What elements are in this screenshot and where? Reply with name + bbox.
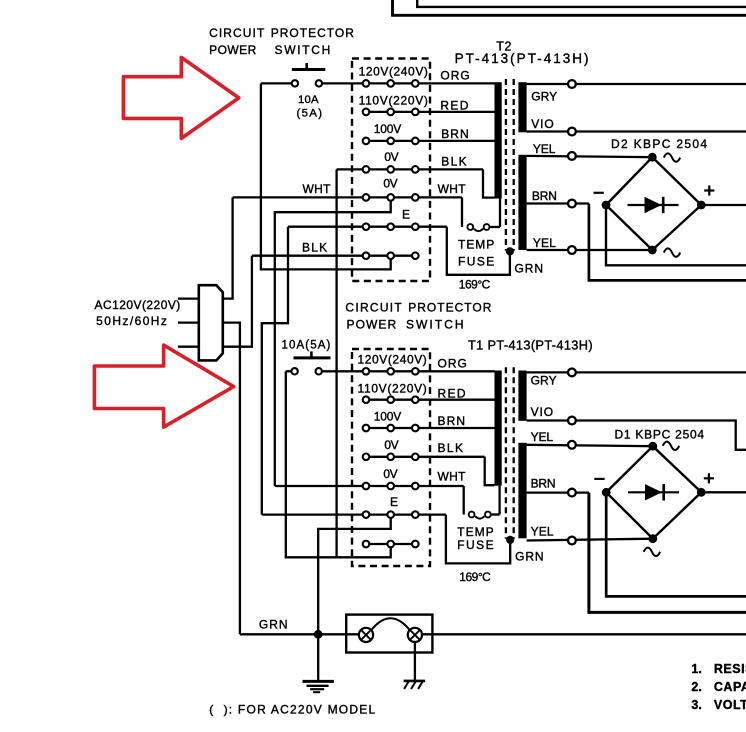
svg-text:YEL: YEL — [531, 430, 554, 444]
wire switch SW2 right lead to selector row1 — [319, 370, 366, 372]
svg-text:169°C: 169°C — [459, 277, 491, 291]
svg-text:YEL: YEL — [531, 524, 554, 538]
label + terminal D2 — [704, 189, 714, 191]
wire selector S1 row7 — [366, 543, 415, 545]
label - terminal D2 — [594, 192, 604, 194]
wire selector S2 row6 E lead to shield GRN — [288, 226, 447, 228]
svg-text:120V(240V): 120V(240V) — [358, 352, 427, 366]
svg-text:POWER: POWER — [209, 43, 257, 57]
wire switch SW1 left lead — [261, 82, 295, 84]
svg-text:BRN: BRN — [441, 127, 469, 141]
temp fuse F1 — [475, 516, 484, 518]
svg-text:GRY: GRY — [531, 373, 557, 387]
svg-text:( ): FOR AC220V MODEL: ( ): FOR AC220V MODEL — [209, 703, 375, 717]
wire arc between lamps — [371, 618, 409, 630]
svg-text:D1 KBPC 2504: D1 KBPC 2504 — [615, 427, 705, 441]
svg-text:PT-413(PT-413H): PT-413(PT-413H) — [455, 51, 589, 66]
wire plug pin3 (BLK) up to selector S2 row7 — [223, 256, 252, 347]
label ~ bottom D2 — [664, 248, 680, 256]
power switch SW1 (10A/5A circuit protector) — [292, 68, 325, 71]
wire T1 secondary YEL lower (to D1 ~ bottom) — [527, 539, 653, 541]
wire T2 secondary VIO — [527, 130, 746, 132]
wire lamp LA2 to chassis ground — [414, 642, 416, 681]
AC input plug — [199, 285, 223, 360]
wire selector S2 row2 110V(220V) to primary RED — [366, 111, 495, 113]
wire selector S2 row4 0V / BLK tap — [337, 168, 483, 170]
wire selector S1 row3 to primary BRN — [366, 427, 495, 429]
transformer T2 secondary winding B bar — [518, 155, 526, 250]
svg-text:BLK: BLK — [438, 441, 464, 455]
label - terminal D1 — [594, 478, 604, 480]
svg-text:RED: RED — [438, 386, 466, 400]
wire selector S1 row2 to primary RED — [366, 399, 495, 401]
wire row7 middle tap to switch SW1 input — [261, 83, 391, 269]
diode symbol inside D2 — [628, 204, 679, 206]
svg-text:POWER: POWER — [347, 317, 397, 331]
wire row5 middle tap down-left, feeds T1 selector WHT chain — [275, 197, 391, 486]
wire frame corner inner (top right) — [417, 0, 746, 7]
svg-text:ORG: ORG — [440, 68, 469, 82]
svg-text:169°C: 169°C — [459, 570, 491, 584]
wire selector S2 row5 0V / WHT lead with temp fuse — [233, 196, 462, 198]
svg-text:D2 KBPC 2504: D2 KBPC 2504 — [611, 137, 707, 151]
svg-text:2.: 2. — [691, 680, 701, 694]
wire GRN ground bus — [240, 633, 366, 635]
wire BLK 0V chain down to T1 row7 feed — [335, 169, 337, 557]
transformer T1 primary winding bar — [495, 371, 502, 486]
wire row7 middle tap to switch SW2 input — [286, 371, 391, 557]
svg-text:WHT: WHT — [438, 469, 467, 483]
svg-text:10A(5A): 10A(5A) — [282, 339, 331, 351]
svg-text:TEMP: TEMP — [458, 237, 494, 251]
lamp LA2 — [408, 628, 422, 642]
wire selector S1 row6 E lead to shield GRN — [262, 513, 446, 515]
svg-text:YEL: YEL — [533, 236, 556, 250]
svg-text:CIRCUIT: CIRCUIT — [345, 301, 402, 315]
wire plug pin1 (WHT) up to selector S2 row5 — [223, 197, 233, 298]
wire T2 secondary GRY — [527, 83, 746, 85]
wire switch SW1 right lead to selector row 1 — [319, 82, 366, 84]
svg-text:E: E — [402, 207, 410, 221]
svg-text:50Hz/60Hz: 50Hz/60Hz — [96, 314, 167, 328]
svg-text:WHT: WHT — [438, 182, 467, 196]
label ~ top D2 — [664, 153, 680, 161]
svg-text:FUSE: FUSE — [458, 254, 494, 268]
svg-text:CAPAC: CAPAC — [714, 680, 746, 694]
wire E chain jog down to T1 selector E row — [262, 227, 288, 515]
svg-text:GRN: GRN — [515, 261, 544, 275]
red block arrow 1 (points to upper power switch) — [123, 57, 238, 138]
diode symbol inside D1 — [628, 491, 679, 493]
svg-text:ORG: ORG — [438, 357, 467, 371]
red block arrow 2 (points to lower power switch) — [94, 345, 233, 427]
transformer T2 primary winding bar — [495, 82, 502, 198]
wire plug pin2 (GRN) down to ground bus — [223, 323, 240, 635]
svg-text:E: E — [390, 495, 398, 509]
svg-text:WHT: WHT — [303, 182, 332, 196]
wire frame corner outer (top right) — [393, 0, 746, 15]
transformer T2 secondary winding A bar — [518, 82, 526, 132]
wire selector S1 row4 0V / BLK tap — [366, 456, 485, 458]
svg-text:VIO: VIO — [531, 117, 554, 131]
svg-text:BRN: BRN — [531, 476, 556, 490]
wire selector S1 row1 to primary ORG — [366, 370, 495, 372]
svg-text:110V(220V): 110V(220V) — [358, 381, 427, 395]
chassis ground symbol — [404, 680, 426, 683]
svg-text:YEL: YEL — [533, 142, 556, 156]
wire D2 + output — [701, 204, 746, 206]
node GRN shield T1 — [506, 536, 514, 544]
temp fuse F2 — [474, 229, 483, 231]
wire D1 - output — [606, 492, 746, 596]
svg-text:PROTECTOR: PROTECTOR — [271, 26, 355, 40]
voltage selector block S1 (dashed outline) — [352, 349, 430, 566]
earth ground symbol — [317, 634, 319, 681]
svg-text:0V: 0V — [383, 467, 397, 481]
wire T1 secondary GRY — [527, 371, 746, 373]
wire GRN ground bus right of lamps — [415, 633, 746, 635]
wire T2 secondary BRN (centre tap output) — [527, 202, 589, 204]
svg-text:0V: 0V — [384, 438, 398, 452]
svg-text:AC120V(220V): AC120V(220V) — [95, 298, 181, 312]
svg-text:10A: 10A — [298, 94, 319, 106]
transformer T1 secondary winding B bar — [518, 443, 526, 539]
svg-text:GRN: GRN — [515, 549, 544, 563]
wire D1 + output — [701, 491, 746, 493]
node GRN shield T2 — [506, 247, 514, 255]
node junction GRN bus / earth — [314, 630, 323, 639]
transformer T1 core (dashed) — [505, 367, 507, 539]
svg-text:VOLTA: VOLTA — [714, 698, 746, 712]
svg-text:GRY: GRY — [531, 90, 557, 104]
svg-text:1.: 1. — [691, 662, 701, 676]
svg-text:BRN: BRN — [438, 414, 466, 428]
plug pin 1 — [178, 297, 199, 299]
wire switch SW2 left lead — [286, 370, 295, 372]
wire selector S2 row7 — [252, 255, 415, 257]
plug pin 3 — [178, 346, 199, 348]
svg-text:BLK: BLK — [302, 240, 327, 254]
wire selector S2 row1 120V(240V) to primary ORG — [366, 82, 495, 84]
label ~ top D1 — [663, 442, 679, 450]
svg-text:TEMP: TEMP — [457, 525, 493, 539]
neon lamp block — [346, 615, 432, 653]
voltage selector block S2 (dashed outline) — [352, 59, 430, 282]
svg-text:100V: 100V — [374, 122, 402, 136]
svg-text:VIO: VIO — [531, 405, 554, 419]
wire T1 secondary BRN (centre tap output) — [527, 491, 589, 493]
svg-text:0V: 0V — [383, 177, 397, 191]
svg-text:110V(220V): 110V(220V) — [359, 93, 428, 107]
selector S1 terminals (7 rows x 3) — [363, 368, 370, 375]
label + terminal D1 — [704, 477, 714, 479]
svg-text:FUSE: FUSE — [457, 538, 493, 552]
wire selector S1 row5 0V / WHT lead with temp fuse — [275, 485, 464, 487]
svg-text:BRN: BRN — [532, 189, 557, 203]
label ~ bottom D1 — [644, 548, 660, 556]
svg-text:3.: 3. — [691, 698, 701, 712]
transformer T1 secondary winding A bar — [518, 371, 526, 421]
selector S2 terminals (7 rows x 3) — [363, 80, 370, 87]
wire T2 secondary YEL (to D2 ~ top) — [527, 156, 653, 157]
wire T1 secondary VIO — [527, 421, 746, 450]
transformer T2 core (dashed) — [505, 79, 507, 251]
svg-text:0V: 0V — [384, 150, 398, 164]
svg-text:GRN: GRN — [259, 618, 288, 632]
svg-text:T1 PT-413(PT-413H): T1 PT-413(PT-413H) — [468, 338, 593, 353]
wire D2 - output — [606, 205, 746, 265]
svg-text:BLK: BLK — [441, 154, 467, 168]
lamp LA1 — [359, 628, 373, 642]
svg-text:CIRCUIT: CIRCUIT — [209, 26, 265, 40]
wire T2 secondary YEL lower (to D2 ~ bottom) — [527, 249, 653, 251]
wire T1 secondary YEL (to D1 ~ top) — [527, 445, 653, 446]
svg-text:RESIS: RESIS — [714, 662, 746, 676]
wire row6 middle tap to ground bus — [318, 515, 391, 635]
svg-text:PROTECTOR: PROTECTOR — [408, 301, 492, 315]
svg-text:100V: 100V — [374, 409, 402, 423]
wire selector S2 row3 100V to primary BRN — [366, 140, 495, 142]
power switch SW2 (lower) — [294, 356, 331, 359]
svg-text:RED: RED — [440, 99, 468, 113]
plug pin 2 — [178, 321, 199, 323]
svg-text:120V(240V): 120V(240V) — [359, 65, 428, 79]
